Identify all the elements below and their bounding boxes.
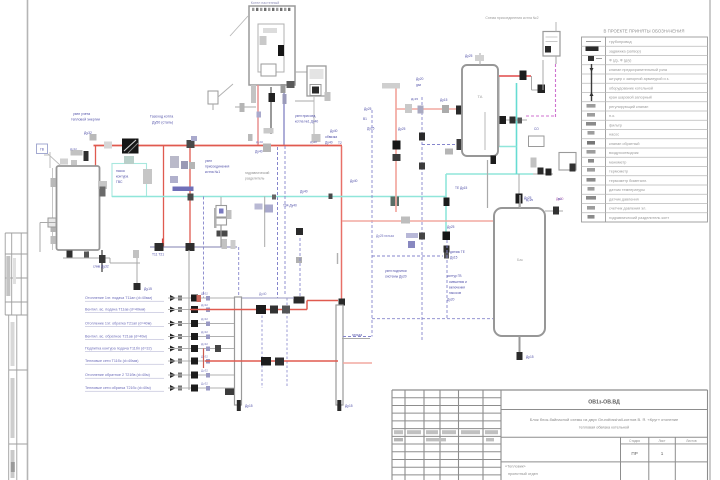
svg-text:Ду15: Ду15 xyxy=(526,355,534,359)
svg-text:Ду32: Ду32 xyxy=(70,147,77,151)
svg-text:Ду25: Ду25 xyxy=(447,225,455,229)
svg-text:воздухоотводчик: воздухоотводчик xyxy=(609,151,639,155)
svg-text:Подпитка контура подача Т11бп: Подпитка контура подача Т11бп (d=32) xyxy=(85,347,152,351)
svg-text:клапан предохранительный узла: клапан предохранительный узла xyxy=(609,68,668,72)
svg-text:системы Ду20: системы Ду20 xyxy=(385,275,407,279)
svg-text:слив Ду32: слив Ду32 xyxy=(93,265,109,269)
svg-text:Ду25 гильза: Ду25 гильза xyxy=(376,234,394,238)
svg-text:Тепловые сети обратка Т21бс (d: Тепловые сети обратка Т21бс (d=40м) xyxy=(85,386,151,390)
svg-text:Ду40: Ду40 xyxy=(350,179,358,183)
svg-text:Т94 Ду40: Т94 Ду40 xyxy=(283,204,297,208)
svg-text:датчик ТЕ: датчик ТЕ xyxy=(450,250,465,254)
svg-text:узел учета: узел учета xyxy=(73,112,90,116)
svg-text:штуцер с запорной арматурой и: штуцер с запорной арматурой и з. xyxy=(609,77,669,81)
svg-text:котла №1: котла №1 xyxy=(205,170,220,174)
svg-text:Вентил. вс. подача Т11ав (d=: Вентил. вс. подача Т11ав (d=40мм) xyxy=(85,308,145,312)
svg-text:Отопление 1эт. обратка Т21ап: Отопление 1эт. обратка Т21ап (d=40м) xyxy=(85,322,151,326)
svg-text:В1: В1 xyxy=(558,197,562,201)
svg-text:задвижка (затвор): задвижка (затвор) xyxy=(609,49,642,53)
svg-text:н.о.: н.о. xyxy=(609,114,615,118)
svg-text:Ду25: Ду25 xyxy=(398,127,406,131)
svg-text:Ду25: Ду25 xyxy=(465,54,473,58)
svg-text:Ду40: Ду40 xyxy=(256,140,263,144)
svg-text:клапан обратный: клапан обратный xyxy=(609,142,639,146)
svg-text:gaz: gaz xyxy=(416,83,422,87)
svg-text:Ду25: Ду25 xyxy=(364,107,372,111)
svg-text:датчик температуры: датчик температуры xyxy=(609,188,645,192)
svg-text:ТЕ Ду15: ТЕ Ду15 xyxy=(455,186,468,190)
svg-text:Ду20: Ду20 xyxy=(447,298,455,302)
svg-text:Листов: Листов xyxy=(686,439,697,443)
svg-text:Т11 Т21: Т11 Т21 xyxy=(152,253,164,257)
svg-text:Ду32: Ду32 xyxy=(201,303,208,307)
svg-text:котла №1 Ду40: котла №1 Ду40 xyxy=(295,120,318,124)
svg-text:Ду15: Ду15 xyxy=(144,287,152,291)
svg-text:трубопровод: трубопровод xyxy=(609,40,632,44)
svg-text:Ду40: Ду40 xyxy=(310,140,317,144)
svg-text:В ПРОЕКТЕ ПРИНЯТЫ ОБОЗНАЧЕНИЯ: В ПРОЕКТЕ ПРИНЯТЫ ОБОЗНАЧЕНИЯ xyxy=(604,29,685,34)
svg-text:Т2: Т2 xyxy=(338,141,342,145)
svg-text:оборудование котельной: оборудование котельной xyxy=(609,86,653,90)
svg-text:Газоход котла: Газоход котла xyxy=(150,115,173,119)
svg-text:манометр: манометр xyxy=(609,160,626,164)
svg-text:фильтр: фильтр xyxy=(609,123,622,127)
svg-text:Ду32: Ду32 xyxy=(201,317,208,321)
svg-text:контур ГВ: контур ГВ xyxy=(447,274,462,278)
svg-text:Ду15: Ду15 xyxy=(345,404,353,408)
svg-text:Стадия: Стадия xyxy=(629,439,640,443)
svg-text:тепловой энергии: тепловой энергии xyxy=(71,118,100,122)
svg-text:Тепловые сети Т11бс (d=40мм): Тепловые сети Т11бс (d=40мм) xyxy=(85,359,138,363)
svg-text:Ду32: Ду32 xyxy=(201,342,208,346)
svg-text:Отопление 1эт. подача Т11ап: Отопление 1эт. подача Т11ап (d=40мм) xyxy=(85,296,152,300)
svg-text:присоединения: присоединения xyxy=(205,165,229,169)
svg-text:ТА: ТА xyxy=(478,94,483,99)
svg-text:Ду40: Ду40 xyxy=(330,129,338,133)
svg-text:смешения и: смешения и xyxy=(449,280,467,284)
svg-text:проектный отдел: проектный отдел xyxy=(508,472,538,476)
svg-text:Вентил. вс. обратное Т21ав (: Вентил. вс. обратное Т21ав (d=40м) xyxy=(85,335,147,339)
svg-text:Ду32: Ду32 xyxy=(201,355,208,359)
svg-text:ПР: ПР xyxy=(631,451,637,456)
svg-text:«Тепловик»: «Тепловик» xyxy=(505,465,526,469)
svg-text:Ду50 (сталь): Ду50 (сталь) xyxy=(152,121,173,125)
svg-text:Ф (д), Ф (д/у): Ф (д), Ф (д/у) xyxy=(609,59,632,63)
svg-text:СО: СО xyxy=(534,127,539,131)
svg-text:включения: включения xyxy=(449,286,465,290)
svg-text:гидравлический: гидравлический xyxy=(245,171,270,175)
svg-text:Схема присоединения котла №2: Схема присоединения котла №2 xyxy=(485,16,538,20)
svg-text:Ду15: Ду15 xyxy=(245,404,253,408)
svg-text:датчик давления: датчик давления xyxy=(609,197,639,201)
svg-text:Бак: Бак xyxy=(517,258,523,262)
svg-text:Ду40: Ду40 xyxy=(300,190,308,194)
svg-text:Блок блок-байпасной схемы из д: Блок блок-байпасной схемы из двух Grundf… xyxy=(530,417,679,422)
svg-text:Ду15: Ду15 xyxy=(440,98,448,102)
svg-text:Отопление обратное 2 Т21бв (d=: Отопление обратное 2 Т21бв (d=40м) xyxy=(85,373,150,377)
svg-text:регулирующий клапан: регулирующий клапан xyxy=(609,105,648,109)
svg-text:тепловая обвязка котельной: тепловая обвязка котельной xyxy=(579,426,629,430)
svg-text:насосов: насосов xyxy=(449,291,461,295)
svg-text:термометр биметалл.: термометр биметалл. xyxy=(609,179,647,183)
svg-text:термометр: термометр xyxy=(609,170,628,174)
svg-text:Ду40: Ду40 xyxy=(259,292,267,296)
svg-text:Ду15: Ду15 xyxy=(450,256,458,260)
svg-text:Ду32: Ду32 xyxy=(84,131,92,135)
svg-text:кран шаровой запорный: кран шаровой запорный xyxy=(609,96,652,100)
svg-text:контура: контура xyxy=(116,175,128,179)
svg-text:счетчик давления эл.: счетчик давления эл. xyxy=(609,207,646,211)
svg-text:Ду15: Ду15 xyxy=(411,97,418,101)
svg-text:ГВС: ГВС xyxy=(116,180,123,184)
svg-text:Ду20: Ду20 xyxy=(416,77,424,81)
svg-text:Лист: Лист xyxy=(659,439,666,443)
svg-text:Котел настенный: Котел настенный xyxy=(251,1,280,5)
svg-text:узел подпитки: узел подпитки xyxy=(385,269,407,273)
svg-text:Ду40: Ду40 xyxy=(325,141,333,145)
svg-text:В1: В1 xyxy=(363,117,367,121)
svg-text:насос: насос xyxy=(116,169,125,173)
svg-text:Ду32: Ду32 xyxy=(201,292,208,296)
svg-text:Ду25: Ду25 xyxy=(526,198,533,202)
svg-text:разделитель: разделитель xyxy=(245,177,265,181)
svg-text:Ду32: Ду32 xyxy=(201,330,208,334)
svg-text:насос: насос xyxy=(609,133,619,137)
svg-text:Ду32: Ду32 xyxy=(201,369,208,373)
svg-text:Ду40: Ду40 xyxy=(255,150,263,154)
svg-text:ГВ: ГВ xyxy=(40,148,44,152)
svg-text:узел присоед.: узел присоед. xyxy=(295,114,316,118)
svg-text:гидравлический разделитель кон: гидравлический разделитель конт xyxy=(609,216,669,220)
svg-text:1: 1 xyxy=(661,451,664,456)
svg-text:узел: узел xyxy=(205,159,212,163)
svg-text:обвязка: обвязка xyxy=(325,135,337,139)
svg-text:Ду25: Ду25 xyxy=(367,127,375,131)
svg-text:ОВ1з-ОВ.ВД: ОВ1з-ОВ.ВД xyxy=(588,400,620,406)
svg-text:Ду32: Ду32 xyxy=(201,382,208,386)
